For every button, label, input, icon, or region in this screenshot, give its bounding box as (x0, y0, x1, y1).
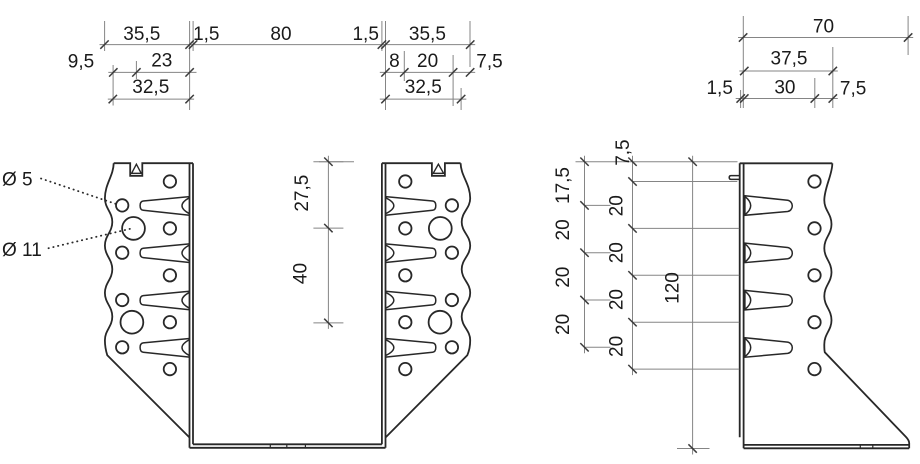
svg-text:9,5: 9,5 (68, 51, 94, 72)
svg-text:120: 120 (663, 272, 684, 304)
svg-text:20: 20 (553, 267, 574, 288)
svg-text:Ø 11: Ø 11 (2, 240, 42, 261)
svg-text:20: 20 (606, 195, 627, 216)
svg-text:20: 20 (417, 51, 438, 72)
svg-text:27,5: 27,5 (292, 175, 313, 212)
svg-text:35,5: 35,5 (409, 24, 446, 45)
svg-text:8: 8 (389, 51, 400, 72)
svg-text:32,5: 32,5 (405, 77, 442, 98)
svg-text:35,5: 35,5 (123, 24, 160, 45)
svg-text:70: 70 (813, 16, 834, 37)
svg-text:1,5: 1,5 (193, 24, 219, 45)
svg-text:20: 20 (606, 242, 627, 263)
svg-text:80: 80 (270, 24, 291, 45)
svg-text:1,5: 1,5 (352, 24, 378, 45)
svg-text:32,5: 32,5 (132, 77, 169, 98)
svg-text:20: 20 (606, 289, 627, 310)
svg-text:17,5: 17,5 (553, 167, 574, 204)
svg-text:1,5: 1,5 (706, 78, 732, 99)
svg-text:7,5: 7,5 (840, 78, 866, 99)
svg-text:20: 20 (606, 336, 627, 357)
svg-text:40: 40 (291, 263, 312, 284)
svg-text:Ø 5: Ø 5 (2, 170, 33, 191)
svg-text:7,5: 7,5 (476, 51, 502, 72)
svg-text:7,5: 7,5 (613, 139, 634, 165)
svg-text:23: 23 (151, 50, 172, 71)
svg-text:37,5: 37,5 (771, 48, 808, 69)
svg-text:20: 20 (553, 314, 574, 335)
svg-text:20: 20 (553, 219, 574, 240)
svg-text:30: 30 (774, 77, 795, 98)
